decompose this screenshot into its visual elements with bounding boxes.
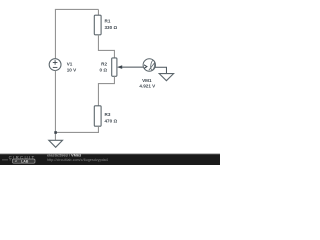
voltage source V1 xyxy=(49,59,61,71)
svg-text:V1: V1 xyxy=(67,62,73,67)
ground (VM1 reference) xyxy=(159,74,173,81)
wire: top horizontal rail xyxy=(55,8,99,10)
resistor R3 xyxy=(94,106,101,126)
footer url text xyxy=(47,158,108,162)
label 470 Ω xyxy=(105,118,118,123)
svg-text:R2: R2 xyxy=(101,61,107,66)
label V1 xyxy=(67,62,73,67)
wire: R1 bottom lead jogging right to R2 top xyxy=(98,35,114,58)
label R3 xyxy=(105,112,111,117)
footer bar xyxy=(0,154,220,165)
wire: R2 bottom lead jogging left to R3 top xyxy=(98,76,114,106)
label R1 xyxy=(105,19,111,24)
svg-text:R1: R1 xyxy=(105,19,111,24)
voltmeter VM1 xyxy=(143,59,155,71)
wire: VM1 negative terminal to ground xyxy=(155,67,166,74)
label R2 xyxy=(101,61,107,66)
label VM1 xyxy=(142,78,152,83)
label 10 V xyxy=(67,67,77,72)
footer title text xyxy=(47,153,82,158)
svg-text:VM1: VM1 xyxy=(142,78,152,83)
R2 wiper arrow from VM1 xyxy=(117,65,144,69)
svg-text:0 Ω: 0 Ω xyxy=(99,68,107,73)
wire: V1 bottom lead down to ground xyxy=(54,71,56,141)
svg-text:LAB: LAB xyxy=(21,159,29,163)
footer CircuitLab logo LAB box xyxy=(2,159,35,163)
resistor R1 xyxy=(94,15,101,35)
svg-text:R3: R3 xyxy=(105,112,111,117)
label 330 Ω xyxy=(105,25,118,30)
potentiometer R2 xyxy=(112,58,117,76)
svg-text:http://circuitlab.com/c/6ugesd: http://circuitlab.com/c/6ugesdvypda4 xyxy=(47,158,108,162)
svg-text:4.921 V: 4.921 V xyxy=(139,83,156,88)
svg-text:330 Ω: 330 Ω xyxy=(105,25,118,30)
wire: R3 bottom lead to bottom rail xyxy=(55,126,98,132)
footer CircuitLab logo CIRCUIT xyxy=(9,155,36,160)
ground (bottom left) xyxy=(49,140,63,147)
label 4.921 V xyxy=(139,83,156,88)
wire: V1 top lead up to top rail xyxy=(54,9,56,59)
wire: R1 top lead xyxy=(97,9,99,15)
junction (node at V1 bottom / bottom rail) xyxy=(54,131,57,134)
svg-text:470 Ω: 470 Ω xyxy=(105,118,118,123)
label 0 Ω xyxy=(99,68,107,73)
svg-text:10 V: 10 V xyxy=(67,67,77,72)
